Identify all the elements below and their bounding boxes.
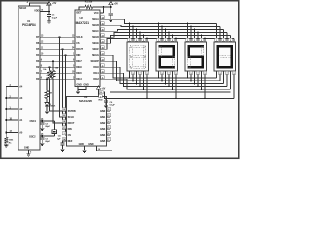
wire display4 top pin 3 drop	[223, 29, 225, 42]
junction DIG line d2	[175, 98, 177, 100]
junction DIG line d1	[146, 98, 148, 100]
ground below U3	[82, 149, 86, 153]
LED D1	[45, 102, 52, 106]
svg-text:ISET: ISET	[76, 11, 82, 15]
junction bottom bus d1p3	[136, 83, 138, 85]
svg-text:0.1µF: 0.1µF	[110, 105, 116, 107]
wire display4 top pin 2 drop	[219, 26, 221, 42]
junction bottom bus d2p5	[172, 88, 174, 90]
wire display3 bottom pin 5 drop	[201, 71, 203, 89]
wire display2 top pin 2 drop	[161, 26, 163, 42]
wire display3 top pin 4 drop	[197, 32, 199, 42]
junction +5V rail U2	[110, 6, 112, 8]
wire display1 bottom pin 2 drop	[132, 71, 134, 81]
+5V supply symbol at U2	[109, 2, 113, 6]
svg-text:VDD: VDD	[98, 99, 103, 101]
wire VCC pin	[100, 12, 104, 14]
svg-text:AIN3: AIN3	[100, 128, 106, 131]
svg-text:GND: GND	[83, 84, 89, 87]
svg-text:22pF: 22pF	[45, 141, 50, 143]
U3 pin AIN3 stub	[107, 128, 111, 130]
display DS2 bottom pin numbers	[160, 71, 178, 75]
svg-text:CS: CS	[76, 42, 80, 45]
wire display1 DIG drop	[146, 71, 148, 98]
U3 pin AIN1 stub	[107, 116, 111, 118]
wire U3 GND2 stub	[97, 146, 113, 151]
wire U2 SEG row 2 to top bus line 2	[100, 25, 220, 26]
junction bottom bus d3p2	[190, 80, 192, 82]
svg-text:DIG2: DIG2	[93, 78, 99, 81]
U3 pin AIN2 stub	[107, 122, 111, 124]
svg-text:0.1µF: 0.1µF	[52, 17, 58, 19]
wire U2 row to bottom bus line 4	[100, 73, 227, 86]
wire B3 to pullup	[52, 61, 54, 70]
junction bottom bus d3p4	[197, 86, 199, 88]
junction B7-SCLK	[59, 36, 61, 38]
display DS3 bottom pin numbers	[189, 71, 207, 75]
wire display1 top pin 2 drop	[132, 26, 134, 42]
svg-text:GND: GND	[79, 143, 85, 146]
display DS1 top pin numbers	[128, 38, 146, 42]
junction OSC1 cap	[41, 120, 43, 122]
wire C5 to ground	[110, 15, 112, 18]
junction top bus d1p5	[143, 35, 145, 37]
wire display2 top pin 1 drop	[158, 23, 160, 42]
svg-text:SCLK: SCLK	[68, 116, 75, 119]
svg-text:DIG7: DIG7	[76, 60, 82, 63]
wire display4 top pin 4 drop	[226, 32, 228, 42]
svg-text:SCLK: SCLK	[76, 36, 83, 39]
U2 pin DIG2 number 6	[101, 76, 105, 80]
svg-text:GND: GND	[76, 84, 82, 87]
wire display1 bottom pin 5 drop	[143, 71, 145, 89]
capacitor C3 22pF	[40, 138, 44, 140]
svg-text:AIN0: AIN0	[100, 110, 106, 113]
wire U1 B6 to U2	[40, 42, 75, 44]
wire U2 GND stubs	[78, 87, 86, 90]
wire B7 to U3 SCLK	[60, 37, 67, 117]
junction VDD rail	[48, 11, 50, 13]
wire display4 top pin 5 drop	[230, 35, 232, 42]
wire display4 bottom pin 2 drop	[219, 71, 221, 81]
wire port-A tie bus	[5, 87, 7, 138]
junction bottom bus d1p4	[139, 86, 141, 88]
U2 pin SEGE number 21	[101, 40, 105, 44]
wire crystal vertical	[54, 121, 56, 130]
junction top bus d3p5	[201, 35, 203, 37]
svg-text:DIG6: DIG6	[76, 66, 82, 69]
U3 pin CS number 1	[62, 132, 66, 136]
svg-text:+5V: +5V	[114, 2, 119, 6]
wire U2 SEG row 5 to top bus line 5	[100, 35, 231, 43]
wire display4 top pin 1 drop	[216, 23, 218, 42]
junction OSC2 cap	[41, 135, 43, 137]
wire display3 top pin 1 drop	[187, 23, 189, 42]
junction bottom bus d2p3	[165, 83, 167, 85]
wire U3 VDD up	[98, 90, 100, 96]
ground below C3	[40, 142, 44, 146]
wire display2 DIG drop	[175, 71, 177, 98]
U2 pin SEGDP number 22	[101, 58, 105, 62]
svg-text:OSC1: OSC1	[29, 119, 36, 123]
svg-text:CS: CS	[68, 134, 72, 137]
resistor R3 10k	[48, 71, 52, 79]
svg-text:AIN2: AIN2	[100, 122, 106, 125]
junction bottom bus d1p1	[129, 77, 131, 79]
IC U3 MAX1295 body	[67, 97, 107, 147]
wire display3 bottom pin 1 drop	[187, 71, 189, 78]
svg-text:SEGDP: SEGDP	[91, 60, 100, 63]
U3 AVDD pin number 2	[99, 95, 103, 99]
wire ISET up	[79, 7, 85, 10]
junction top bus d3p3	[194, 29, 196, 31]
wire display4 bottom pin 3 drop	[223, 71, 225, 84]
wire display2 bottom pin 2 drop	[161, 71, 163, 81]
wire display3 bottom pin 4 drop	[197, 71, 199, 86]
svg-text:DIG0: DIG0	[93, 66, 99, 69]
svg-text:SEGC: SEGC	[92, 30, 99, 33]
junction top bus d2p3	[165, 29, 167, 31]
wire B0 to R2	[46, 79, 48, 90]
svg-text:+5V: +5V	[101, 89, 105, 91]
display DS1 bottom pin numbers	[131, 71, 149, 75]
junction B5-DIN	[62, 48, 64, 50]
junction bottom bus d2p1	[158, 77, 160, 79]
svg-text:SEGD: SEGD	[92, 36, 99, 39]
wire display2 bottom pin 4 drop	[168, 71, 170, 86]
wire C4 to ground	[62, 145, 64, 148]
wire display3 top pin 3 drop	[194, 29, 196, 42]
resistor R4 10k	[51, 71, 55, 79]
junction top bus d1p3	[136, 29, 138, 31]
wire display4 bottom pin 4 drop	[226, 71, 228, 86]
U3 pin AIN1 number 3	[107, 114, 111, 118]
svg-text:22pF: 22pF	[45, 126, 50, 128]
ground below U2	[76, 90, 80, 94]
U3 pin AIN0 number 2	[107, 108, 111, 112]
wire LED to ground	[46, 106, 48, 110]
svg-text:MAX7221: MAX7221	[76, 21, 90, 25]
wire U1 B3 to U2	[40, 60, 75, 62]
junction C6 on +5V line	[105, 97, 107, 99]
+5V supply symbol at U1	[47, 2, 51, 6]
junction top bus d3p4	[197, 32, 199, 34]
junction B4-CS	[65, 54, 67, 56]
junction bottom bus d3p3	[194, 83, 196, 85]
resistor R2 5K	[45, 91, 49, 99]
display DS3 body	[185, 42, 207, 71]
svg-text:PIC16F84: PIC16F84	[22, 23, 36, 27]
wire display2 top pin 4 drop	[168, 32, 170, 42]
svg-text:DIN: DIN	[76, 54, 80, 57]
wire U1 B1 to U2	[40, 72, 75, 74]
U3 pin AIN2 number 4	[107, 120, 111, 124]
wire C2 stem	[41, 121, 43, 123]
wire U1 B0 to U2	[40, 78, 75, 80]
U3 pin SSTRB number 19	[62, 108, 66, 112]
svg-text:MCLR: MCLR	[19, 6, 26, 10]
IC U2 MAX7221 body	[75, 10, 100, 87]
display DS1 body	[127, 42, 149, 71]
svg-text:SEGF: SEGF	[92, 48, 99, 51]
svg-text:+5V: +5V	[52, 2, 57, 5]
wire U2 SEG row 6 to top bus line 6	[100, 38, 234, 49]
junction B2-SSTRB	[49, 66, 51, 68]
U2 pin SEGG number 17	[101, 52, 105, 56]
wire OSC2	[40, 135, 55, 137]
wire U1 A1	[6, 119, 18, 121]
wire display1 top pin 5 drop	[143, 35, 145, 42]
svg-text:AIN5: AIN5	[100, 140, 106, 143]
U2 pin SEGC number 20	[101, 28, 105, 32]
U3 pin REF number 14	[62, 138, 66, 142]
wire display2 top pin 5 drop	[172, 35, 174, 42]
wire B2 to pullup2	[49, 67, 51, 70]
wire C1 to ground	[48, 16, 50, 19]
U3 pin AIN4 number 6	[107, 132, 111, 136]
wire display2 bottom pin 5 drop	[172, 71, 174, 89]
svg-text:MAX1295: MAX1295	[79, 99, 92, 103]
junction top bus d2p4	[168, 32, 170, 34]
+5V supply symbol at U3	[96, 86, 100, 90]
wire U1 B7 to U2	[40, 36, 75, 38]
wire display1 top pin 4 drop	[139, 32, 141, 42]
U3 pin SCLK number 20	[62, 114, 66, 118]
U2 pin DIG1 number 11	[101, 70, 105, 74]
wire C6 stem	[105, 98, 107, 100]
svg-text:REF: REF	[68, 140, 73, 143]
ground below C2	[40, 127, 44, 131]
ground below U1	[26, 152, 30, 156]
junction B3-DOUT	[52, 60, 54, 62]
U2 pin DIG0 number 2	[101, 64, 105, 68]
wire display3 top pin 6 drop	[204, 38, 206, 42]
wire U1 B5 to U2	[40, 48, 75, 50]
display DS4 body	[214, 42, 236, 71]
display DS2 segments	[159, 45, 175, 68]
wire C3 stem	[41, 136, 43, 138]
ground below LED	[45, 110, 49, 114]
svg-text:DIG4: DIG4	[76, 78, 82, 81]
svg-text:DIG1: DIG1	[93, 72, 99, 75]
wire display3 top pin 5 drop	[201, 35, 203, 42]
svg-text:SEGG: SEGG	[92, 54, 99, 57]
svg-text:SEGA: SEGA	[92, 18, 99, 21]
svg-text:DOUT: DOUT	[68, 122, 75, 125]
wire rail to C5	[110, 7, 112, 13]
wire B4 to U3 CS	[66, 55, 67, 135]
IC U1 PIC16F84 body	[18, 6, 40, 150]
junction A1	[5, 119, 7, 121]
ground below C5	[109, 18, 113, 22]
wire pullup to U3 DOUT	[53, 79, 67, 124]
junction top bus d3p2	[190, 26, 192, 28]
junction bottom bus d3p5	[201, 88, 203, 90]
U3 pin DOUT number 18	[62, 120, 66, 124]
ground below C1	[47, 19, 51, 23]
wire B5 to U3 DIN	[63, 49, 67, 129]
svg-text:GND: GND	[24, 146, 30, 149]
wire U1 A0	[6, 132, 18, 134]
capacitor C6	[104, 100, 108, 102]
U3 pin AIN4 stub	[107, 134, 111, 136]
svg-text:OSC2: OSC2	[29, 135, 36, 139]
resistor R1 10k	[85, 5, 93, 9]
junction top bus d1p6	[146, 38, 148, 40]
wire display1 top pin 6 drop	[146, 38, 148, 42]
crystal X1	[52, 130, 57, 134]
junction bottom bus d2p4	[168, 86, 170, 88]
wire display4 DIG drop	[233, 71, 235, 98]
junction bottom bus d2p2	[161, 80, 163, 82]
svg-text:SSTRB: SSTRB	[68, 110, 76, 113]
display DS4 bottom pin numbers	[218, 71, 236, 75]
svg-text:DOUT: DOUT	[76, 48, 83, 51]
wire display1 top pin 1 drop	[129, 23, 131, 42]
svg-text:SEGB: SEGB	[92, 24, 99, 27]
junction R1/VCC	[103, 6, 105, 8]
junction top bus d1p2	[132, 26, 134, 28]
display DS3 segments	[188, 45, 204, 68]
wire U1 GND stub	[28, 150, 30, 152]
wire U2 row to bottom bus line 2	[100, 61, 220, 81]
wire VDD pin	[40, 11, 49, 13]
junction top bus d2p2	[161, 26, 163, 28]
wire U1 A2	[6, 108, 18, 110]
display DS2 body	[156, 42, 178, 71]
wire pullup2 to U3 SSTRB	[50, 79, 67, 112]
display DS1 segments	[130, 45, 146, 68]
junction top bus d2p1	[158, 23, 160, 25]
wire U1 B2 to U2	[40, 66, 75, 68]
wire MCLR to +5V rail	[30, 3, 50, 6]
wire OSC1	[40, 120, 55, 122]
svg-text:VCC: VCC	[94, 11, 99, 15]
U2 pin SEGA number 14	[101, 16, 105, 19]
svg-text:R1 10k: R1 10k	[85, 1, 93, 4]
junction top bus d3p6	[204, 38, 206, 40]
U2 pin SEGB number 16	[101, 22, 105, 26]
wire display3 DIG drop	[204, 71, 206, 98]
wire display4 bottom pin 1 drop	[216, 71, 218, 78]
wire display4 top pin 6 drop	[233, 38, 235, 42]
wire display1 top pin 3 drop	[136, 29, 138, 42]
wire display3 bottom pin 3 drop	[194, 71, 196, 84]
wire C6 to ground	[105, 102, 107, 104]
wire +5V rail down	[48, 5, 50, 15]
wire U2 SEG row 1 to top bus line 1	[100, 19, 217, 23]
wire display3 top pin 2 drop	[190, 26, 192, 42]
display DS4 segments	[217, 45, 233, 68]
junction bottom bus d1p5	[143, 88, 145, 90]
ground below C6	[104, 104, 108, 108]
wire U1 B4 to U2	[40, 54, 75, 56]
wire display4 bottom pin 5 drop	[230, 71, 232, 89]
wire display1 bottom pin 4 drop	[139, 71, 141, 86]
junction A3	[5, 97, 7, 99]
U3 VDD pin number 20	[99, 91, 103, 95]
resistor Ra 100k	[4, 137, 8, 143]
junction top bus d2p6	[175, 38, 177, 40]
bottom bus line 7 DIG	[105, 92, 235, 99]
U2 pin SEGD number 23	[101, 34, 105, 38]
wire REF to C4	[63, 141, 67, 143]
svg-text:AIN4: AIN4	[100, 134, 106, 137]
capacitor C5	[109, 13, 113, 15]
U3 pin AIN3 number 5	[107, 126, 111, 130]
svg-text:SEGE: SEGE	[92, 42, 99, 45]
wire display2 bottom pin 3 drop	[165, 71, 167, 84]
wire display2 top pin 3 drop	[165, 29, 167, 42]
display DS2 top pin numbers	[157, 38, 175, 42]
junction top bus d3p1	[187, 23, 189, 25]
U3 pin DIN number 17	[62, 126, 66, 130]
wire display2 bottom pin 1 drop	[158, 71, 160, 78]
junction top bus d1p1	[129, 23, 131, 25]
wire U3 GND stub	[84, 146, 86, 149]
wire R2 to LED	[46, 99, 48, 103]
U3 pin AIN5 stub	[107, 140, 111, 142]
wire display1 bottom pin 1 drop	[129, 71, 131, 78]
junction B0-LED	[46, 78, 48, 80]
junction A2	[5, 108, 7, 110]
U3 pin AIN0 stub	[107, 110, 111, 112]
wire R1 to rail	[93, 6, 111, 8]
wire display3 bottom pin 2 drop	[190, 71, 192, 81]
junction bottom bus d1p2	[132, 80, 134, 82]
wire U2 row to bottom bus line 3	[100, 67, 224, 83]
wire U1 A3	[6, 97, 18, 99]
display DS3 top pin numbers	[186, 38, 204, 42]
bottom bus line 6	[110, 91, 231, 93]
wire display2 top pin 6 drop	[175, 38, 177, 42]
svg-text:DIN: DIN	[68, 128, 72, 131]
wire U1 A4	[6, 86, 18, 88]
wire U2 row to bottom bus line 5	[100, 79, 231, 89]
capacitor C2 22pF	[40, 123, 44, 125]
border frame	[1, 1, 239, 159]
U3 pin AIN5 number 7	[107, 138, 111, 142]
junction top bus d1p4	[139, 32, 141, 34]
junction top bus d2p5	[172, 35, 174, 37]
svg-text:VDD: VDD	[34, 8, 39, 12]
junction A0	[5, 132, 7, 134]
capacitor C4	[60, 143, 64, 145]
junction bottom bus d3p1	[187, 77, 189, 79]
wire U2 SEG row 3 to top bus line 3	[100, 29, 224, 31]
svg-text:DIG5: DIG5	[76, 72, 82, 75]
svg-text:GND: GND	[88, 143, 94, 146]
wire display1 bottom pin 3 drop	[136, 71, 138, 84]
capacitor C1	[47, 15, 51, 17]
junction DIG line d3	[204, 98, 206, 100]
ground below C4	[60, 148, 64, 152]
svg-text:AIN1: AIN1	[100, 116, 106, 119]
wire U2 row to bottom bus line 1	[100, 55, 217, 78]
wire U2 SEG row 4 to top bus line 4	[100, 32, 227, 37]
ground below Ra	[4, 143, 8, 147]
U2 pin SEGF number 15	[101, 46, 105, 50]
display DS4 top pin numbers	[215, 38, 233, 42]
